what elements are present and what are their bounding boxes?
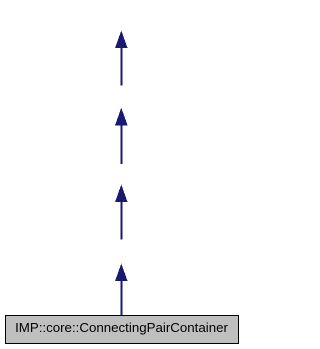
class box IMP::core::ConnectingPairContainer [6, 316, 239, 344]
inheritance arrow 1 (topmost) [115, 31, 128, 86]
inheritance arrow 2 [115, 108, 128, 164]
inheritance arrow 4 (bottom, into class box) [115, 264, 128, 316]
inheritance arrow 3 [115, 185, 128, 240]
class box label [0, 318, 243, 338]
